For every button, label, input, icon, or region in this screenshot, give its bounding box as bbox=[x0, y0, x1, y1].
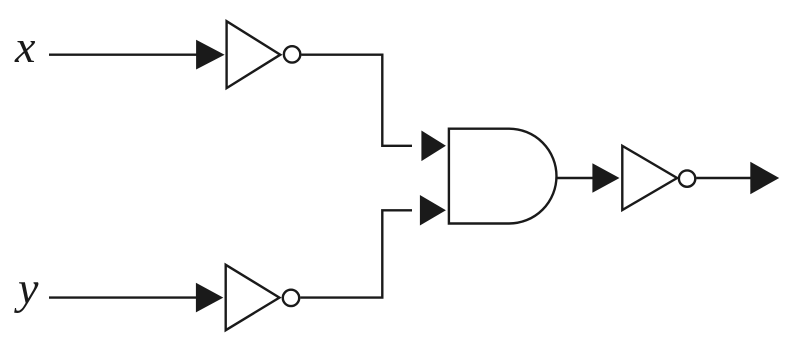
arrowhead into AND gate top input bbox=[421, 131, 446, 162]
inverter U2 triangle bbox=[226, 265, 280, 330]
arrowhead into inverter U2 bbox=[196, 283, 223, 313]
wire from y to inverter U2 input bbox=[49, 296, 205, 298]
wire from x to inverter U1 input bbox=[49, 54, 205, 56]
final output arrowhead bbox=[750, 162, 779, 194]
arrowhead into inverter U1 bbox=[196, 40, 225, 70]
inverter U1 triangle bbox=[227, 21, 281, 88]
inverter U4 triangle bbox=[622, 146, 677, 210]
wire from U2 bubble to corner bbox=[300, 210, 412, 297]
inverter U4 bubble bbox=[679, 170, 695, 186]
inverter U2 bubble bbox=[283, 290, 299, 306]
output wire bbox=[697, 177, 759, 179]
svg-text:x: x bbox=[14, 21, 36, 72]
inverter U1 bubble bbox=[284, 46, 300, 62]
arrowhead into inverter U4 bbox=[592, 163, 619, 192]
svg-text:y: y bbox=[14, 263, 39, 314]
wire from U1 bubble to corner bbox=[301, 55, 412, 146]
arrowhead into AND gate bottom input bbox=[420, 195, 446, 226]
AND gate U3 body bbox=[449, 129, 557, 224]
wire from AND output to inverter U4 bbox=[557, 177, 601, 179]
